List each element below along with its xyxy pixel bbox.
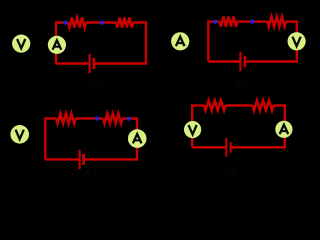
resistor R2 (circuit d) xyxy=(253,100,274,110)
resistor R2 (circuit a) xyxy=(116,18,133,28)
resistor R2 (circuit c) xyxy=(103,113,122,123)
svg-text:(b): (b) xyxy=(234,79,246,90)
battery B1 (circuit d) xyxy=(225,138,231,157)
resistor R1 (circuit b) xyxy=(220,17,238,27)
wire: circuit a, top middle segment xyxy=(86,21,116,23)
wire: circuit c, top middle segment xyxy=(76,117,104,119)
resistor R1 (circuit d) xyxy=(204,100,226,110)
ammeter A (circuit b, unconnected) xyxy=(171,32,189,50)
ammeter A (circuit d, in right branch) xyxy=(275,121,292,138)
wire: circuit b, bottom-left segment xyxy=(208,60,240,62)
node dot 1 (circuit c) xyxy=(95,116,99,120)
svg-text:(d): (d) xyxy=(225,165,237,176)
wire: circuit a, bottom-left segment xyxy=(56,62,89,64)
wire: circuit c, bottom-left segment xyxy=(45,158,79,160)
wire: circuit c, top-right + right branch xyxy=(85,118,137,159)
wire: circuit b, top-right + right branch xyxy=(247,22,297,62)
wire: circuit b, top middle segment xyxy=(237,20,267,22)
voltmeter V (circuit a, unconnected) xyxy=(12,35,30,53)
node dot 2 (circuit c) xyxy=(127,117,131,121)
battery B1 (circuit a) xyxy=(89,54,96,73)
wire: circuit d, left branch + top-left segment xyxy=(192,105,204,147)
svg-text:(a): (a) xyxy=(90,79,102,90)
node dot 1 (circuit b) xyxy=(213,20,217,24)
ammeter A (circuit a, in left branch) xyxy=(48,36,66,54)
resistor R1 (circuit a) xyxy=(68,18,86,28)
wire: circuit d, top-right + right branch xyxy=(232,105,285,147)
wire: circuit a, top-left segment xyxy=(56,23,68,64)
voltmeter V (circuit c, unconnected) xyxy=(10,125,29,144)
voltmeter V (circuit d, in left branch) xyxy=(184,121,201,138)
battery B1 (circuit c) xyxy=(79,150,85,169)
resistor R2 (circuit b) xyxy=(268,17,287,27)
wire: circuit b, left branch + top-left segment xyxy=(208,22,219,62)
battery B1 (circuit b) xyxy=(239,52,246,71)
wire: circuit d, top middle segment xyxy=(226,104,253,106)
voltmeter V (circuit b, in right branch) xyxy=(288,32,306,50)
wire: circuit a, top-right + right branch xyxy=(95,23,146,64)
resistor R1 (circuit c) xyxy=(56,113,75,123)
wire: circuit c, left branch + top-left segment xyxy=(45,118,56,159)
svg-text:(c): (c) xyxy=(85,168,97,179)
ammeter A (circuit c, in right branch) xyxy=(128,129,147,148)
node dot 2 (circuit a) xyxy=(100,21,104,25)
node dot 2 (circuit b) xyxy=(250,20,254,24)
wire: circuit d, bottom-left segment xyxy=(192,146,226,148)
node dot 1 (circuit a) xyxy=(63,21,67,25)
